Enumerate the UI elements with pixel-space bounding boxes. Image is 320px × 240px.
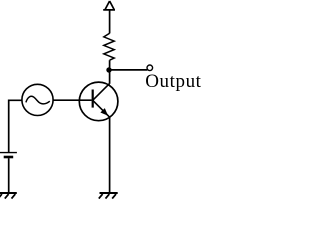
transistor Q1 base bar bbox=[92, 90, 94, 108]
transistor Q1 circle bbox=[79, 82, 118, 121]
transistor Q1 collector lead bbox=[93, 84, 110, 101]
wire emitter to ground bbox=[109, 117, 111, 192]
wire resistor to collector bbox=[109, 60, 111, 84]
transistor Q1 emitter lead bbox=[93, 100, 110, 117]
ground earth left hatches bbox=[0, 194, 15, 199]
ground earth left bar bbox=[0, 192, 17, 194]
wire base to transistor bbox=[53, 99, 91, 101]
output terminal pin circle bbox=[147, 65, 153, 71]
power supply VCC arrow bbox=[103, 1, 115, 10]
resistor R1 bbox=[104, 33, 114, 60]
transistor Q1 emitter arrowhead bbox=[100, 108, 108, 116]
battery B1 negative plate bbox=[4, 156, 14, 159]
wire AC source left to corner bbox=[9, 100, 22, 152]
AC source V1 sine wave bbox=[26, 96, 50, 104]
wire battery to ground bbox=[8, 158, 10, 192]
wire node to output terminal bbox=[109, 69, 147, 71]
ground earth middle hatches bbox=[99, 194, 116, 199]
ground earth middle bar bbox=[100, 192, 118, 194]
AC source V1 circle bbox=[22, 84, 53, 115]
junction dot node bbox=[106, 67, 111, 72]
battery B1 positive plate bbox=[0, 152, 17, 154]
svg-text:Output: Output bbox=[145, 71, 201, 92]
wire VCC to resistor bbox=[109, 10, 111, 34]
